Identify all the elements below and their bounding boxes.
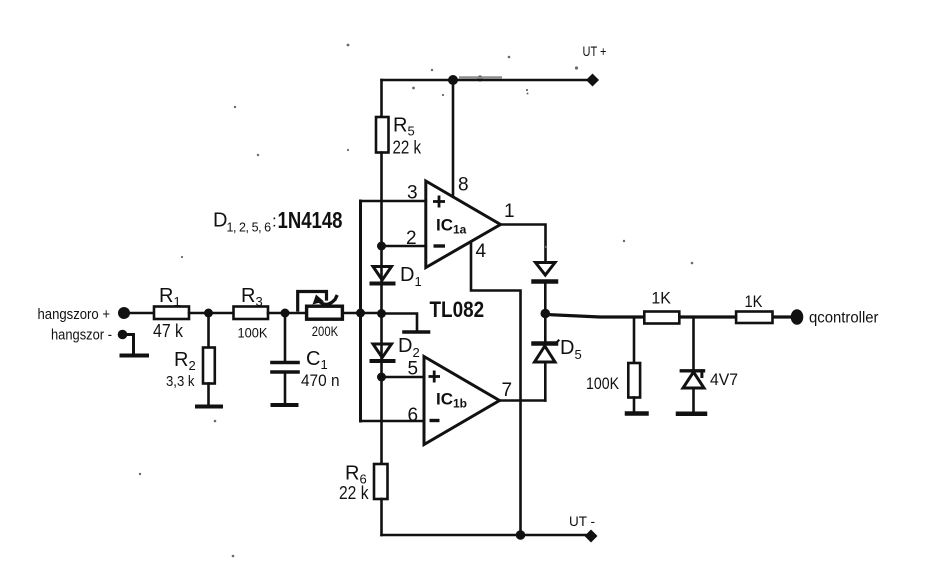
svg-text:100K: 100K <box>238 325 269 341</box>
svg-text:1K: 1K <box>651 290 671 308</box>
node UT- terminal <box>585 530 598 543</box>
resistor 1K second <box>736 312 772 324</box>
scan noise specks <box>139 44 694 558</box>
node junction bottom rail <box>516 530 526 540</box>
node qcontroller output <box>791 309 804 325</box>
ground bar 100K <box>627 411 647 416</box>
wire node to R6 <box>380 377 383 464</box>
svg-text:TL082: TL082 <box>430 298 485 323</box>
resistor 1K first <box>644 312 679 324</box>
svg-text:6: 6 <box>408 405 419 426</box>
wire to R2 <box>207 313 210 348</box>
ground stub at node <box>382 314 418 331</box>
wire pin4 to UT- rail <box>471 243 521 535</box>
ground bar R2 <box>197 405 221 409</box>
resistor R5 <box>376 117 389 153</box>
wire pin1 output <box>501 225 546 263</box>
node output junction <box>541 309 551 319</box>
wire pot to box <box>342 312 381 315</box>
wire R3 to pot <box>268 312 307 315</box>
svg-text:hangszoro +: hangszoro + <box>38 307 111 323</box>
node junction R3/C1 <box>281 309 290 318</box>
svg-text:3: 3 <box>407 183 418 204</box>
svg-text:4: 4 <box>476 241 487 262</box>
op-amp IC1b <box>424 357 500 445</box>
svg-text::: : <box>272 212 277 231</box>
ground bar zener <box>678 412 705 417</box>
svg-text:8: 8 <box>458 175 469 196</box>
node input hangszoro+ <box>118 307 130 319</box>
wire to zener <box>692 317 695 370</box>
wire output line <box>545 315 791 318</box>
svg-text:1K: 1K <box>745 293 763 311</box>
svg-text:22 k: 22 k <box>339 483 369 503</box>
wire diode chain through D1 <box>380 246 383 314</box>
svg-text:UT -: UT - <box>569 514 595 529</box>
svg-text:7: 7 <box>502 380 513 401</box>
node junction box left <box>356 309 365 318</box>
op-amp IC1a <box>426 181 501 268</box>
ground bar stub <box>404 330 429 334</box>
wire to C1 <box>284 313 287 361</box>
svg-text:2: 2 <box>406 228 417 249</box>
wire D5 to pin7 line <box>544 362 547 401</box>
wire pin3 <box>361 200 426 203</box>
wire bottom supply rail UT- <box>382 534 590 537</box>
svg-text:100K: 100K <box>586 375 619 393</box>
node junction top rail to pin8 <box>448 75 458 85</box>
node input hangszor- <box>118 330 128 340</box>
wire D6 to output node <box>544 282 547 343</box>
rail smudge <box>459 76 502 79</box>
svg-text:200K: 200K <box>312 323 339 339</box>
resistor 100K <box>628 363 640 398</box>
node pin5 junction <box>377 373 386 382</box>
zener diode 4V7 <box>681 371 704 388</box>
resistor R1 <box>154 307 189 320</box>
wire pin5 <box>382 376 425 379</box>
op-amp IC1b plus sign <box>429 375 441 378</box>
svg-text:hangszor -: hangszor - <box>51 328 112 344</box>
node UT+ terminal <box>586 74 599 87</box>
resistor R6 <box>374 464 388 499</box>
ground bar C1 <box>273 403 297 407</box>
wire R1 to R3 <box>189 312 234 315</box>
wire zener to ground <box>692 388 695 412</box>
svg-text:47 k: 47 k <box>153 321 184 341</box>
diode D1 <box>372 267 394 284</box>
op-amp IC1a plus sign <box>429 196 446 421</box>
wire 100K to ground <box>633 398 636 413</box>
wire C1 to ground <box>284 372 287 404</box>
wire rail down to R5 <box>380 80 383 117</box>
svg-text:qcontroller: qcontroller <box>809 310 879 327</box>
node pin2 junction <box>377 242 386 251</box>
svg-text:1N4148: 1N4148 <box>278 208 343 234</box>
wire R2 to ground <box>207 384 210 406</box>
potentiometer wiper arrow <box>298 292 337 311</box>
svg-text:22 k: 22 k <box>393 138 422 158</box>
svg-text:D: D <box>213 210 227 232</box>
wire hangszor- to ground <box>123 335 134 355</box>
node junction diode chain <box>377 309 386 318</box>
svg-text:470 n: 470 n <box>301 372 340 390</box>
potentiometer 200K body <box>307 306 343 319</box>
wire R6 to bottom rail <box>380 499 383 535</box>
svg-text:5: 5 <box>408 359 419 380</box>
svg-text:UT +: UT + <box>583 44 607 59</box>
wire pin2 <box>382 245 426 248</box>
wire pin6 <box>361 420 425 423</box>
ground bar input <box>122 354 148 358</box>
capacitor C1 <box>272 363 298 373</box>
svg-text:3,3 k: 3,3 k <box>166 373 195 390</box>
wire pin7 <box>500 399 546 402</box>
wire feedback box left <box>359 201 362 421</box>
diode D2 <box>372 344 394 361</box>
svg-text:1, 2, 5, 6: 1, 2, 5, 6 <box>227 221 272 235</box>
node junction R1/R2/R3 <box>204 309 213 318</box>
wire R5 to pin2 node <box>380 153 383 247</box>
diode D5 <box>534 341 559 363</box>
wire top supply rail UT+ <box>382 79 591 82</box>
op-amp IC1b minus sign <box>430 419 440 422</box>
op-amp IC1a minus sign <box>434 244 446 247</box>
resistor R3 <box>234 307 269 320</box>
wire diode chain through D2 <box>380 314 383 378</box>
wire input to R1 <box>124 312 154 315</box>
wire pin8 <box>452 80 455 196</box>
wire to 100K <box>633 317 636 363</box>
svg-text:4V7: 4V7 <box>710 371 738 389</box>
label D-list 1N4148 <box>213 208 343 234</box>
svg-text:1: 1 <box>504 201 515 222</box>
node small blob on rail <box>477 76 483 82</box>
diode D6 <box>534 263 557 282</box>
resistor R2 <box>203 348 215 384</box>
